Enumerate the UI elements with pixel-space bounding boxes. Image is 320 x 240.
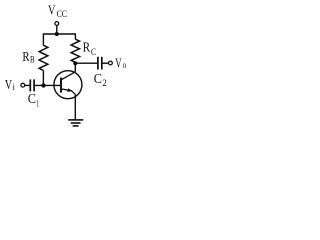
wire RC to collector junction [74, 62, 76, 63]
svg-text:V: V [115, 57, 122, 72]
terminal Vo [109, 61, 113, 65]
resistor RC [71, 39, 79, 62]
svg-text:1: 1 [36, 100, 39, 110]
junction VCC bus [55, 32, 59, 36]
wire C2 to Vo [102, 62, 109, 64]
svg-text:C: C [28, 92, 36, 107]
resistor RB [39, 45, 48, 70]
terminal Vi [21, 83, 25, 87]
svg-text:B: B [30, 56, 35, 66]
capacitor C1 [30, 79, 34, 91]
svg-text:V: V [48, 4, 55, 19]
svg-text:C: C [94, 72, 102, 87]
capacitor C2 label [94, 72, 107, 89]
resistor RB label [22, 50, 34, 66]
svg-text:C: C [91, 48, 96, 58]
transistor Q1 (NPN) [54, 71, 82, 99]
wire RB to base [42, 70, 44, 85]
wire collector to C2 [75, 62, 98, 64]
wire VCC stem [56, 25, 58, 34]
wire Vi to C1 [25, 84, 30, 86]
wire emitter to ground [74, 94, 76, 119]
svg-text:2: 2 [102, 79, 107, 89]
svg-text:R: R [83, 41, 91, 56]
node VCC label [48, 4, 67, 21]
svg-text:CC: CC [57, 10, 67, 20]
wire supply bus [43, 34, 75, 46]
ground [68, 120, 83, 126]
capacitor C1 label [28, 92, 39, 109]
wire base [34, 84, 61, 86]
node Vo label [115, 57, 126, 72]
node Vi label [5, 78, 15, 93]
junction base node [41, 83, 45, 87]
terminal VCC [55, 22, 59, 26]
junction collector node [73, 61, 77, 65]
svg-text:V: V [5, 78, 12, 93]
svg-text:o: o [123, 61, 127, 71]
wire collector [74, 63, 76, 72]
svg-text:R: R [22, 50, 30, 65]
capacitor C2 [98, 57, 102, 70]
resistor RC label [83, 41, 96, 58]
svg-text:i: i [13, 83, 15, 93]
